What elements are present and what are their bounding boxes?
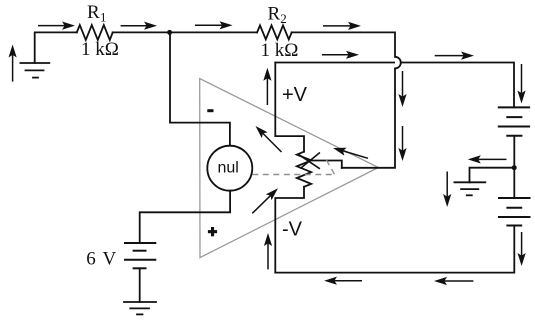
svg-text:-V: -V xyxy=(282,219,303,241)
wire: mid junction to center-tap ground xyxy=(470,168,515,183)
current arrow A16 up (+V supply pin) xyxy=(266,78,268,105)
battery 6V (two cells) xyxy=(124,243,156,268)
mid junction node xyxy=(512,165,517,170)
resistor R2 zigzag xyxy=(257,25,292,39)
wire: junction to R2 xyxy=(170,31,257,33)
current arrow A7 right (+V rail right) xyxy=(435,55,464,57)
current arrow A12 down (into mid ground) xyxy=(446,172,448,197)
current arrow A13 down (out of bottom battery) xyxy=(521,232,523,256)
wire: inverting input from junction down xyxy=(170,32,230,145)
wire hop (output wire jumps +V rail) xyxy=(395,57,401,69)
current arrow A2 right (into R1) xyxy=(38,25,65,27)
current arrow A19 diagonal up-right (pot current lower) xyxy=(252,196,270,214)
battery (top right, two cells) xyxy=(498,107,530,135)
current arrow A17 up (-V supply pin) xyxy=(267,243,269,269)
wire: R1 to junction xyxy=(113,31,170,33)
potentiometer wiper X arrow xyxy=(298,153,320,169)
current arrow A9 down (output branch lower) xyxy=(402,126,404,151)
null meter circle xyxy=(207,146,252,191)
current arrow A4 right (before R2) xyxy=(195,24,222,26)
wire: null meter bottom to 6V battery xyxy=(140,191,230,243)
svg-text:1 kΩ: 1 kΩ xyxy=(261,40,299,61)
wire: 6V battery to ground stem xyxy=(139,268,141,302)
svg-text:R: R xyxy=(87,2,100,23)
current arrow A11 left (toward mid ground) xyxy=(478,158,506,160)
wire: +V rail (horizontal, R2 level to top battery) xyxy=(275,63,514,108)
svg-text:6: 6 xyxy=(86,249,96,270)
wire: mid junction to top battery xyxy=(513,136,515,168)
current arrow A18 diagonal up-left (pot current upper) xyxy=(263,133,282,152)
svg-text:R: R xyxy=(268,4,281,25)
current arrow A20 diagonal left (wiper current) xyxy=(343,151,368,158)
wire: wiper to output (step) xyxy=(313,161,342,168)
wire: input ground stem to R1 (top left) xyxy=(35,32,77,63)
ground (input, top left) xyxy=(20,63,49,78)
current arrow A5 right (after R2) xyxy=(323,25,351,27)
op-amp minus input label xyxy=(207,109,213,112)
current arrow A10 down (into top battery) xyxy=(521,64,523,93)
current arrow A8 down (output branch upper) xyxy=(402,71,404,97)
svg-text:V: V xyxy=(103,249,117,270)
resistor R1 zigzag xyxy=(77,25,113,40)
ground (below 6V battery) xyxy=(124,302,156,314)
potentiometer zigzag xyxy=(297,152,311,187)
junction node (R1/R2/inverting input) xyxy=(167,30,172,35)
svg-text:nul: nul xyxy=(218,160,239,177)
current arrow A6 right (+V rail left) xyxy=(322,54,349,56)
svg-text:1: 1 xyxy=(100,10,107,25)
dashed linkage null meter to wiper xyxy=(252,159,334,174)
current arrow A3 right (after R1) xyxy=(121,25,147,27)
current arrow A14 left (bottom wire right) xyxy=(444,280,473,282)
battery (bottom right, two cells) xyxy=(498,198,531,226)
svg-text:+V: +V xyxy=(282,84,308,106)
ground (supply center tap) xyxy=(454,182,485,195)
wire: +V supply staircase to potentiometer top xyxy=(275,63,304,152)
wire: potentiometer bottom staircase to -V rail xyxy=(275,187,304,273)
svg-text:2: 2 xyxy=(280,11,287,26)
wire: bottom battery to mid junction xyxy=(513,168,515,198)
op-amp triangle (gray outline) xyxy=(200,79,379,258)
current arrow A15 left (bottom wire left) xyxy=(334,280,362,282)
wire: R2 to top-right corner xyxy=(292,32,395,56)
current arrow A1 up (left of input ground) xyxy=(12,55,14,82)
wire: output branch down to output node xyxy=(342,68,395,167)
op-amp plus input label xyxy=(208,227,217,236)
wire: bottom rail (-V to bottom battery) xyxy=(275,226,514,273)
svg-text:1 kΩ: 1 kΩ xyxy=(81,39,119,60)
